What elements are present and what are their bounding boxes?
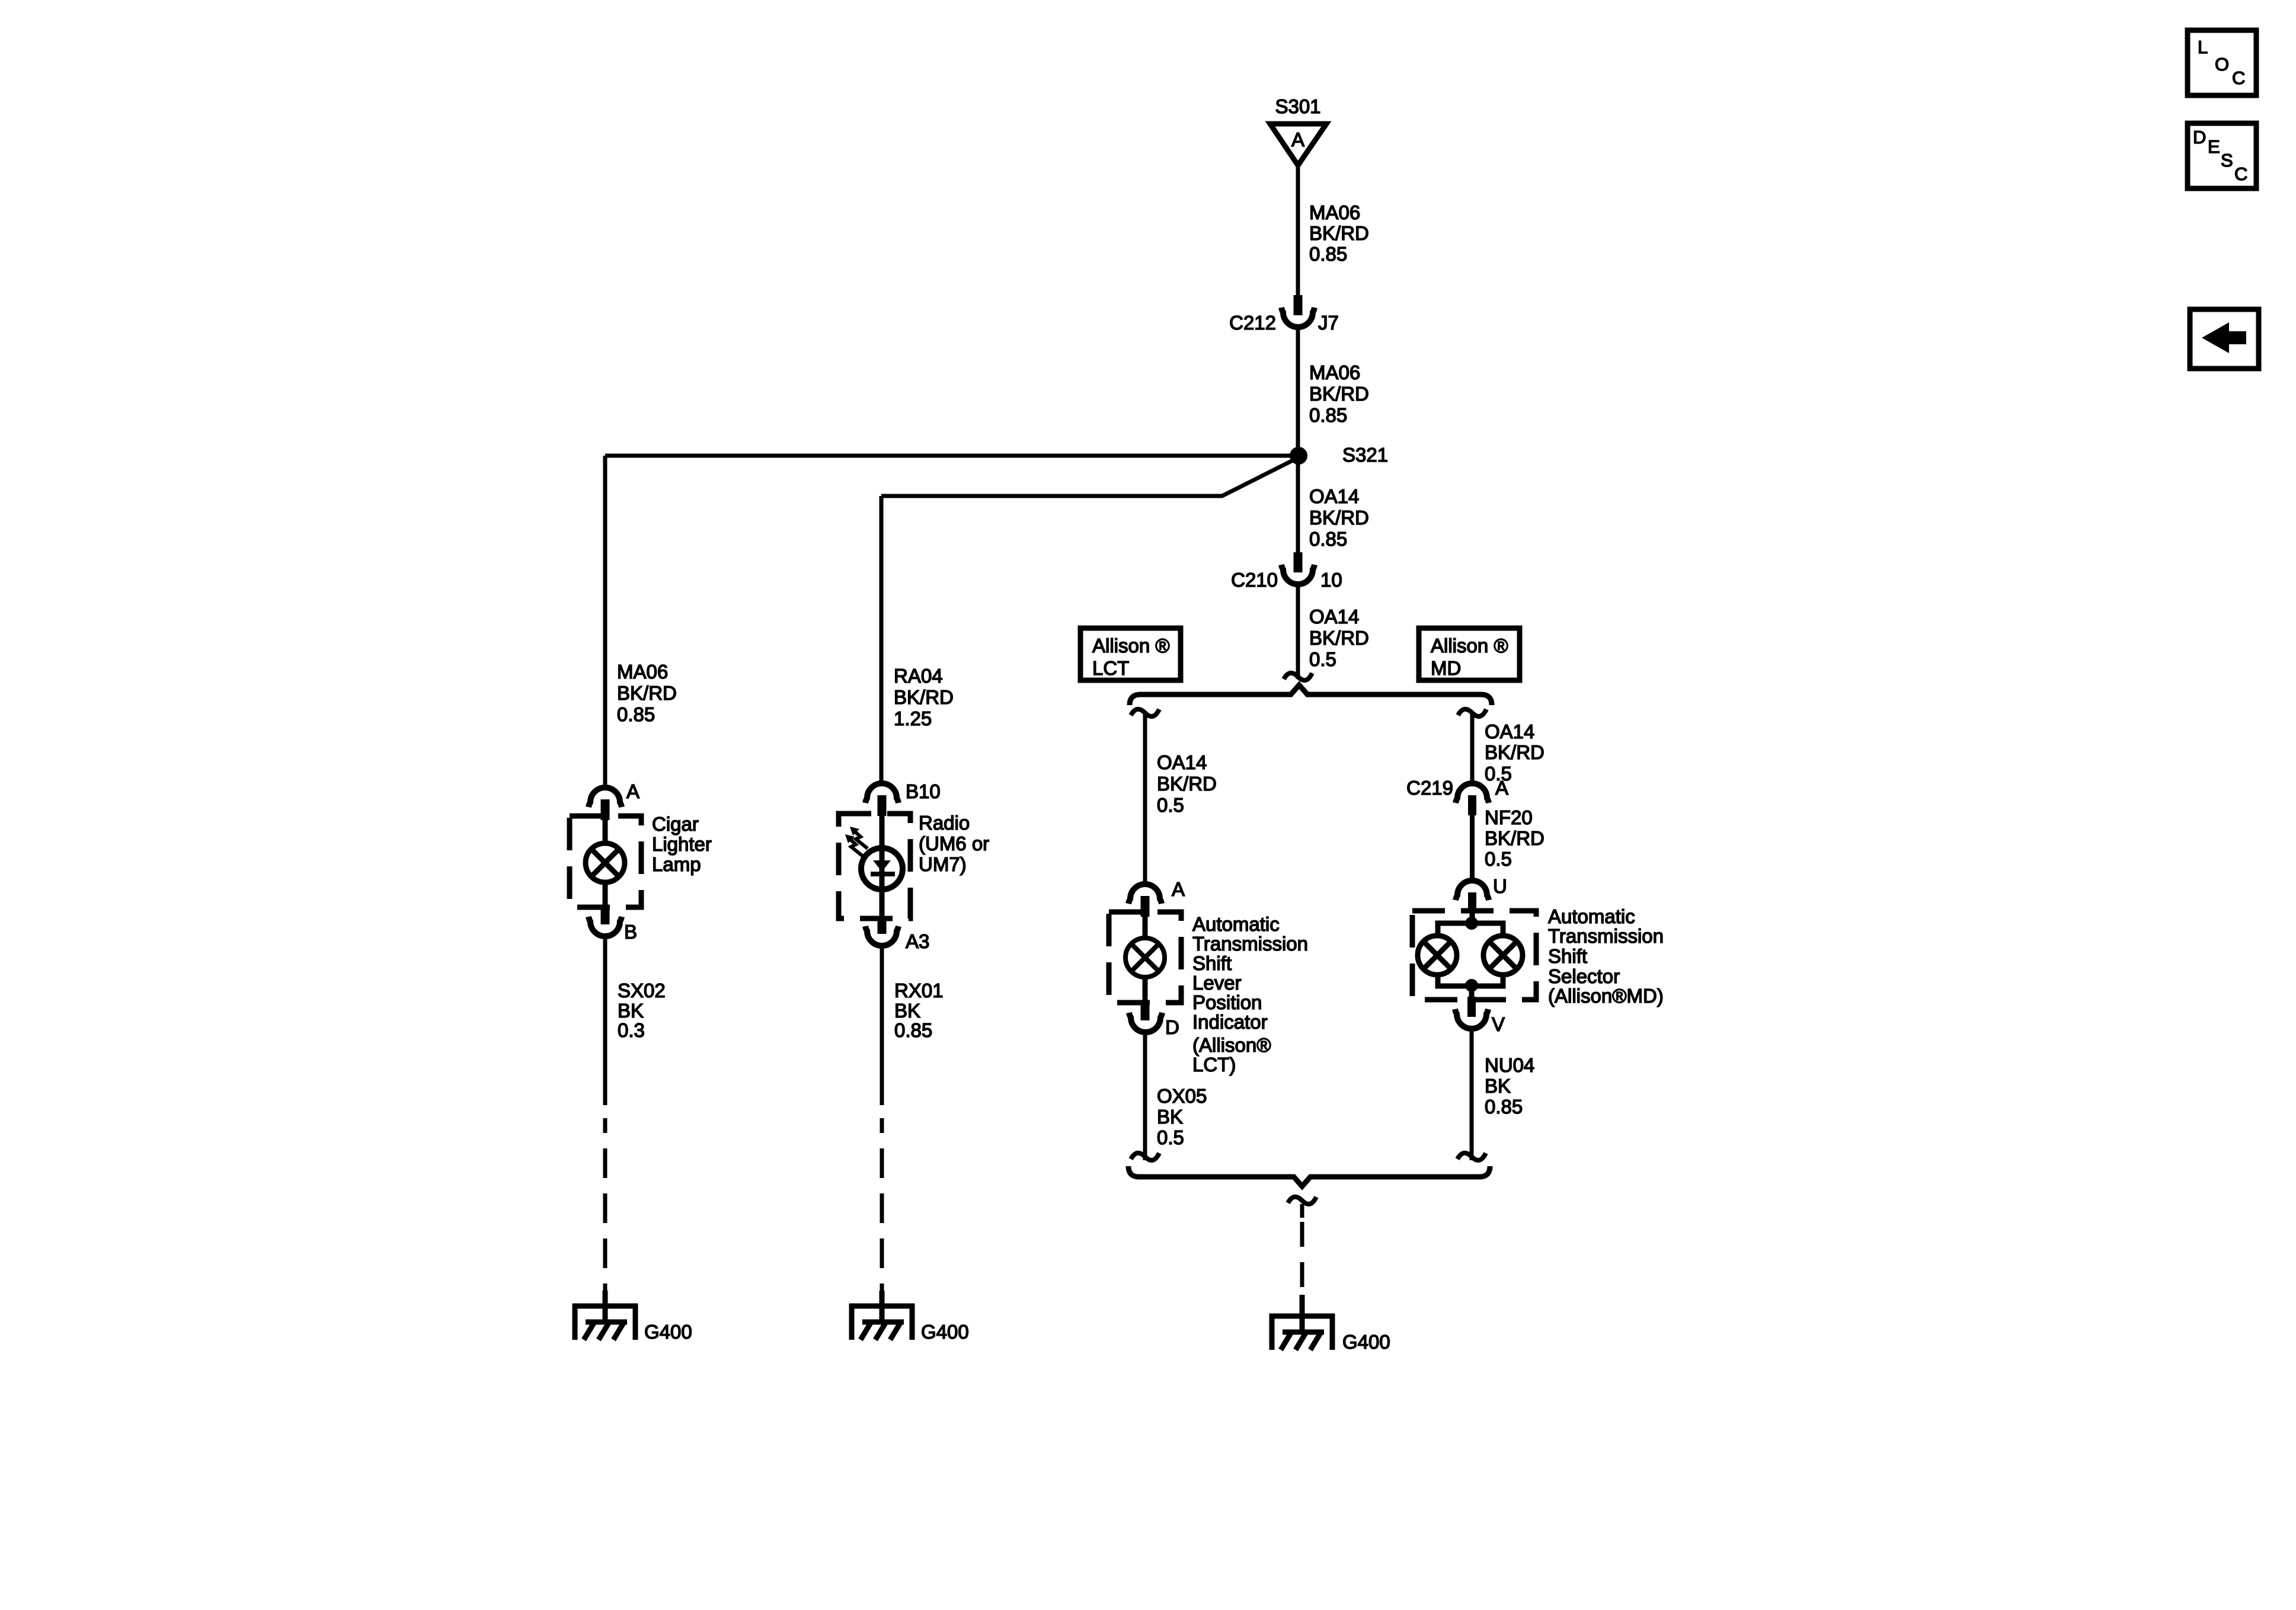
connector C212 pin J7 [1281, 295, 1315, 327]
svg-text:Transmission: Transmission [1548, 925, 1664, 947]
svg-text:NF20: NF20 [1485, 806, 1533, 828]
svg-text:A3: A3 [906, 930, 929, 952]
label RX01 BK 0.85 [894, 980, 944, 1041]
svg-text:Allison ®: Allison ® [1431, 635, 1508, 657]
svg-text:Lever: Lever [1192, 972, 1242, 994]
back arrow box [2190, 309, 2259, 369]
svg-text:Transmission: Transmission [1192, 933, 1308, 955]
connector C219 pin A [1456, 783, 1489, 815]
splice S321 (junction dot) [1290, 447, 1307, 465]
svg-text:A: A [626, 780, 639, 802]
wire OA14 indicator branch [1143, 714, 1147, 882]
svg-text:0.85: 0.85 [617, 703, 655, 725]
wire inside radio box [880, 816, 885, 917]
wire break squiggle top of selector branch [1458, 709, 1486, 716]
svg-text:Automatic: Automatic [1548, 905, 1635, 927]
wire break squiggle bottom of selector branch [1457, 1153, 1486, 1160]
connector pin U of shift selector [1456, 881, 1489, 912]
wire break squiggle above top bracket [1284, 673, 1312, 680]
svg-text:Lamp: Lamp [652, 853, 701, 875]
wire OX05 from D to bottom bracket [1143, 1035, 1147, 1160]
label Radio (UM6 or UM7) [919, 812, 989, 875]
svg-text:UM7): UM7) [919, 853, 967, 875]
wire OA14 selector branch [1470, 714, 1475, 782]
node: selector top junction [1465, 917, 1478, 930]
svg-text:0.3: 0.3 [618, 1019, 645, 1041]
label Automatic Transmission Shift Lever Position Indicator (AllisonR LCT) [1192, 913, 1308, 1076]
svg-text:B10: B10 [906, 780, 941, 802]
automatic transmission shift lever position indicator dashed box [1109, 912, 1181, 1003]
svg-text:A: A [1291, 129, 1304, 151]
svg-text:C219: C219 [1406, 777, 1453, 799]
label RA04 BK/RD 1.25 [894, 665, 954, 729]
svg-text:B: B [624, 921, 637, 943]
wire inside cigar box [603, 820, 608, 846]
svg-text:V: V [1492, 1013, 1505, 1035]
svg-text:Allison ®: Allison ® [1092, 635, 1170, 657]
label OA14 BK/RD 0.5 [1309, 606, 1369, 670]
svg-text:C210: C210 [1231, 569, 1278, 591]
ground G400 (transmission) [1269, 1295, 1335, 1350]
cigar lighter branch: vertical wire MA06 [603, 456, 607, 786]
svg-text:BK/RD: BK/RD [617, 682, 677, 704]
pin V of shift selector [1455, 985, 1488, 1029]
dashed wire to ground G400 (cigar) [603, 1118, 607, 1292]
wire stub to ground dashed [1300, 1204, 1304, 1218]
connector pin A of shift indicator [1128, 884, 1162, 917]
label OA14 BK/RD 0.85 [1309, 485, 1369, 550]
label OX05 BK 0.5 [1157, 1085, 1207, 1148]
svg-text:L: L [2198, 37, 2208, 57]
radio dashed box [839, 814, 910, 918]
svg-text:C212: C212 [1229, 312, 1276, 334]
lamp selector left [1418, 936, 1457, 975]
svg-text:G400: G400 [921, 1321, 969, 1343]
svg-text:C: C [2234, 164, 2247, 184]
wire inside cigar box lower [603, 881, 608, 907]
svg-text:G400: G400 [1342, 1331, 1390, 1353]
wire RX01 from A3 to ground [880, 949, 884, 1105]
svg-text:MA06: MA06 [1309, 361, 1360, 383]
svg-text:Cigar: Cigar [652, 813, 699, 835]
svg-text:(UM6 or: (UM6 or [919, 833, 989, 854]
svg-text:S301: S301 [1275, 95, 1320, 117]
svg-text:LCT): LCT) [1192, 1054, 1236, 1076]
svg-text:1.25: 1.25 [894, 708, 932, 729]
label OA14 BK/RD 0.5 (indicator) [1157, 751, 1217, 816]
label MA06 BK/RD 0.85 (upper) [1309, 201, 1369, 265]
svg-text:A: A [1495, 777, 1508, 799]
svg-text:J7: J7 [1318, 312, 1339, 334]
svg-text:U: U [1493, 875, 1507, 897]
wire selector lamp loop bottom [1438, 974, 1503, 986]
wire break squiggle bottom of indicator branch [1131, 1153, 1159, 1160]
pin D of shift indicator [1129, 1000, 1162, 1032]
wire SX02 from B to ground [603, 939, 607, 1105]
wire from S321 left to cigar lighter branch [605, 454, 1299, 458]
Allison LCT box [1080, 628, 1181, 680]
svg-text:0.85: 0.85 [1309, 528, 1347, 550]
connector pin B10 of radio [865, 783, 898, 816]
wire MA06 from C212 to S321 [1296, 329, 1300, 453]
connector C210 pin 10 [1281, 552, 1315, 584]
svg-text:0.85: 0.85 [1485, 1096, 1523, 1118]
wire OA14 from C210 to bus break [1296, 586, 1300, 679]
svg-text:Automatic: Automatic [1192, 913, 1280, 935]
label Cigar Lighter Lamp [652, 813, 712, 875]
svg-text:0.5: 0.5 [1157, 794, 1184, 816]
radio branch: vertical wire RA04 [880, 496, 884, 782]
svg-text:BK: BK [618, 1000, 644, 1022]
svg-text:Shift: Shift [1548, 945, 1587, 967]
svg-text:OA14: OA14 [1157, 751, 1207, 773]
DESC reference box [2188, 123, 2256, 188]
lamp indicator [1125, 938, 1165, 977]
svg-text:0.5: 0.5 [1485, 848, 1512, 870]
wire selector lamp loop top [1438, 923, 1503, 937]
dashed wire to ground G400 (radio) [880, 1118, 884, 1292]
svg-text:MA06: MA06 [617, 661, 668, 683]
svg-text:RX01: RX01 [894, 980, 944, 1001]
svg-text:BK/RD: BK/RD [1309, 507, 1369, 529]
top options bracket [1130, 685, 1492, 705]
svg-text:10: 10 [1320, 569, 1342, 591]
wire OA14 from S321 to C210 [1296, 456, 1300, 553]
cigar lighter lamp dashed box [570, 816, 641, 907]
svg-text:O: O [2215, 54, 2229, 75]
label OA14 BK/RD 0.5 (selector) [1485, 721, 1544, 785]
svg-text:BK/RD: BK/RD [1309, 383, 1369, 405]
svg-text:0.85: 0.85 [1309, 404, 1347, 426]
node: selector bottom junction [1465, 979, 1478, 992]
svg-text:0.85: 0.85 [1309, 243, 1347, 265]
svg-text:BK: BK [894, 1000, 920, 1022]
wire MA06 from S301 to C212 [1296, 165, 1300, 296]
label SX02 BK 0.3 [618, 980, 666, 1041]
lamp cigar lighter [586, 843, 625, 882]
automatic transmission shift selector dashed box [1412, 911, 1536, 1000]
svg-text:BK/RD: BK/RD [1157, 773, 1217, 795]
svg-text:OA14: OA14 [1309, 485, 1359, 507]
svg-text:S: S [2221, 150, 2233, 171]
ground G400 (radio) [849, 1291, 914, 1340]
label NU04 BK 0.85 [1485, 1054, 1534, 1118]
connector pin A of cigar lighter lamp [589, 788, 622, 820]
svg-text:(Allison®: (Allison® [1192, 1034, 1271, 1056]
pin A3 of radio [865, 916, 898, 946]
wire NU04 from V to bottom bracket [1470, 1032, 1474, 1160]
Allison MD box [1419, 628, 1520, 680]
ground G400 (cigar) [573, 1291, 638, 1340]
svg-text:RA04: RA04 [894, 665, 943, 687]
label MA06 BK/RD 0.85 (lower) [1309, 361, 1369, 426]
wire from pin U to junction [1470, 912, 1475, 923]
svg-text:S321: S321 [1342, 444, 1388, 466]
svg-text:Radio: Radio [919, 812, 970, 834]
svg-text:MD: MD [1431, 657, 1461, 679]
svg-text:OX05: OX05 [1157, 1085, 1207, 1107]
svg-text:BK/RD: BK/RD [1485, 827, 1544, 849]
svg-text:E: E [2208, 136, 2220, 157]
wire inside indicator box lower [1143, 975, 1148, 1001]
splice symbol S301 (triangle with A) [1270, 124, 1326, 165]
svg-text:SX02: SX02 [618, 980, 666, 1001]
bottom options bracket [1128, 1166, 1490, 1186]
LED of radio [861, 848, 903, 889]
svg-text:G400: G400 [644, 1321, 692, 1343]
svg-text:D: D [2193, 127, 2206, 148]
svg-text:MA06: MA06 [1309, 201, 1360, 223]
lamp selector right [1483, 936, 1523, 975]
label NF20 BK/RD 0.5 [1485, 806, 1544, 870]
wire break squiggle top of indicator branch [1131, 709, 1159, 716]
svg-text:C: C [2232, 68, 2245, 88]
LED light arrows [845, 827, 868, 856]
svg-text:LCT: LCT [1092, 657, 1129, 679]
svg-text:BK/RD: BK/RD [1309, 627, 1369, 649]
svg-text:OA14: OA14 [1309, 606, 1359, 628]
svg-text:Position: Position [1192, 991, 1262, 1013]
svg-text:BK: BK [1485, 1075, 1511, 1097]
svg-text:A: A [1172, 878, 1185, 900]
svg-text:BK/RD: BK/RD [1485, 741, 1544, 763]
wire diagonal from S321 to radio branch [881, 457, 1299, 496]
svg-text:Lighter: Lighter [652, 833, 712, 855]
svg-text:0.85: 0.85 [894, 1019, 932, 1041]
pin B of cigar lighter lamp [589, 906, 622, 936]
svg-text:BK/RD: BK/RD [1309, 222, 1369, 244]
svg-text:NU04: NU04 [1485, 1054, 1534, 1076]
svg-text:BK/RD: BK/RD [894, 686, 954, 708]
svg-text:0.5: 0.5 [1309, 648, 1336, 670]
LOC reference box [2188, 30, 2256, 95]
wire inside indicator box [1143, 917, 1148, 940]
wire NF20 from C219 to U [1470, 815, 1475, 879]
svg-text:Selector: Selector [1548, 965, 1620, 987]
wire break squiggle below bottom bracket [1288, 1197, 1316, 1204]
svg-text:BK: BK [1157, 1106, 1183, 1128]
label MA06 BK/RD 0.85 (cigar branch) [617, 661, 677, 725]
svg-text:(Allison®MD): (Allison®MD) [1548, 985, 1664, 1007]
svg-text:Indicator: Indicator [1192, 1011, 1268, 1033]
svg-text:Shift: Shift [1192, 952, 1232, 974]
svg-text:0.5: 0.5 [1157, 1126, 1184, 1148]
svg-text:D: D [1165, 1016, 1179, 1038]
label Automatic Transmission Shift Selector (AllisonRMD) [1548, 905, 1664, 1007]
svg-text:OA14: OA14 [1485, 721, 1534, 742]
